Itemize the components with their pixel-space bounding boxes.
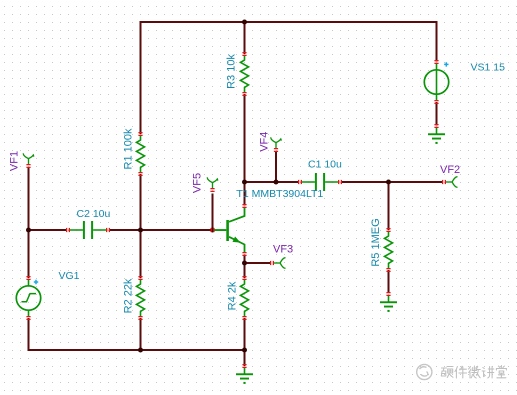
wire R4 bottom stub [244,318,246,350]
svg-text:VF4: VF4 [258,132,270,152]
wire ground stub [244,350,246,366]
resistor R2 [123,276,145,320]
wire R1 to R2 [140,174,142,278]
resistor R3 [226,52,249,96]
probe VF5 [192,173,218,193]
svg-text:R4 2k: R4 2k [227,281,239,310]
svg-text:R5 1MEG: R5 1MEG [370,218,382,266]
svg-text:C2 10u: C2 10u [77,208,111,220]
ground (bottom rail) [236,364,253,384]
svg-text:VF3: VF3 [273,244,293,256]
wire top rail [141,22,437,134]
svg-text:VS1 15: VS1 15 [471,62,506,74]
voltage source VS1 [424,60,505,104]
probe VF4 [258,132,281,152]
resistor R5 [370,218,393,272]
wire R2 to bottom rail [140,318,142,350]
ground (R5) [380,292,397,312]
wire VF4 stub [275,152,277,182]
wire C2 left [29,229,67,231]
node junction dots [26,20,391,353]
capacitor C2 [66,208,111,239]
wire R5 node to VF2 [389,181,443,183]
probe VF2 [440,164,460,187]
wire emitter to VF3 [245,262,271,264]
wire VF1 to VG1 [28,168,30,278]
resistor R1 [123,128,145,176]
probe VF1 [9,151,34,171]
wire R5 top stub [388,182,390,230]
svg-text:C1 10u: C1 10u [308,159,342,171]
svg-text:R2 22k: R2 22k [123,278,135,313]
svg-text:VG1: VG1 [59,270,80,282]
svg-text:T1 MMBT3904LT1: T1 MMBT3904LT1 [237,188,324,200]
svg-text:VF1: VF1 [9,151,21,171]
capacitor C1 [298,159,342,192]
svg-text:VF5: VF5 [192,173,204,193]
svg-text:R3 10k: R3 10k [226,54,238,89]
svg-text:VF2: VF2 [440,164,460,176]
wire emitter to R4 [244,255,246,279]
wire R3 top stub [244,21,246,54]
probe VF3 [270,244,293,269]
wire bottom rail [29,318,245,350]
wire VS1 to ground [436,102,438,126]
wire R3 bottom to collector [244,94,246,206]
svg-text:R1 100k: R1 100k [123,128,135,169]
watermark logo [417,364,432,379]
resistor R4 [227,276,249,320]
wire collector row to C1 [245,181,299,183]
wire VF5 stub [212,194,214,231]
wire C1 to R5 node [342,181,389,183]
wire C2 right to base [110,229,213,231]
voltage source VG1 [16,270,79,320]
wire R5 to ground [388,270,390,293]
ground (VS1) [428,124,445,144]
transistor Q1 T1 [211,188,324,256]
watermark text [441,366,506,379]
